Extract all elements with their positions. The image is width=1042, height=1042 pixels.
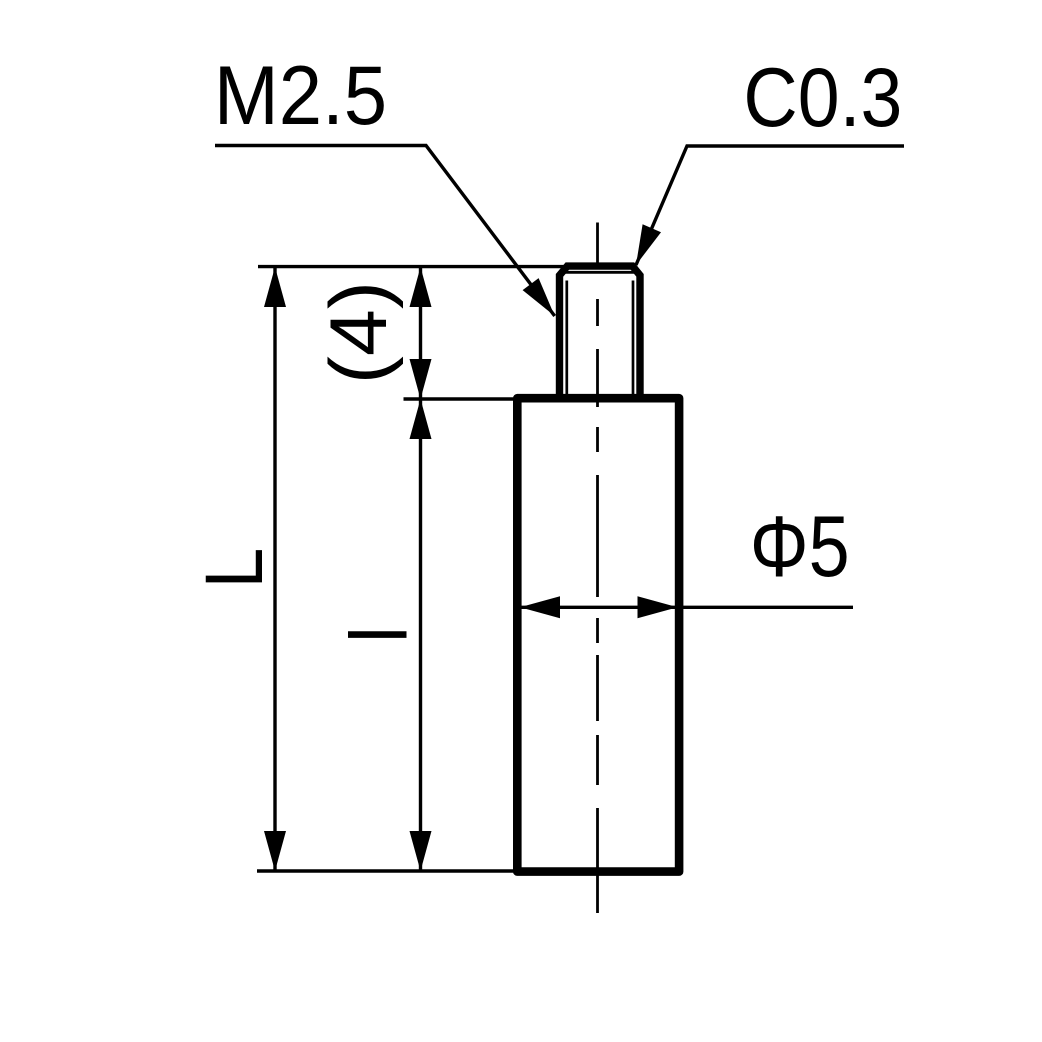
svg-text:Φ5: Φ5 [750, 498, 850, 595]
arrowhead (4) bottom [410, 359, 432, 399]
arrowhead diameter right [638, 596, 678, 618]
arrowhead C0.3 leader [636, 224, 661, 265]
arrowhead l bottom [410, 831, 432, 871]
arrowhead L top [264, 267, 286, 307]
leader line M2.5 [215, 146, 555, 317]
arrowhead L bottom [264, 831, 286, 871]
thread stud outer profile with chamfered top [560, 266, 641, 398]
thread root line left [565, 281, 568, 396]
arrowhead (4) top [410, 267, 432, 307]
arrowhead l top [410, 399, 432, 439]
dimension line (4) [419, 267, 422, 399]
extension line bottom (at body bottom level) [257, 869, 520, 872]
dimension line L [273, 267, 276, 871]
extension line middle (at shoulder level) [404, 397, 520, 400]
centerline (vertical chain line) [596, 223, 599, 914]
dimension line l [419, 399, 422, 871]
leader line C0.3 [636, 146, 904, 265]
svg-text:L: L [189, 548, 280, 589]
arrowhead diameter left [520, 596, 560, 618]
svg-text:(4): (4) [313, 281, 404, 384]
svg-text:C0.3: C0.3 [743, 50, 902, 143]
dimension line diameter [520, 606, 853, 609]
arrowhead M2.5 leader [523, 278, 555, 316]
svg-text:l: l [335, 626, 424, 643]
body outline (cylinder, front view) [517, 398, 679, 871]
thread root line right [632, 281, 635, 396]
extension line top (at thread top level) [258, 265, 566, 268]
svg-text:M2.5: M2.5 [214, 50, 387, 143]
chamfer line under top edge [566, 271, 635, 274]
